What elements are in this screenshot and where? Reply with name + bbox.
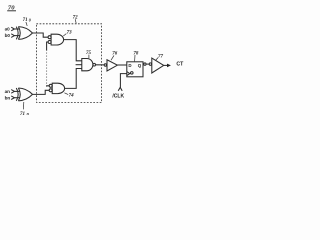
wire bn (14, 97, 20, 99)
svg-text:0: 0 (29, 17, 31, 22)
inverter 76 (107, 60, 117, 71)
AND gate 73 (51, 34, 63, 45)
gate 73 input bubble bottom (48, 41, 51, 44)
label 78 (133, 51, 139, 56)
label 75 (86, 51, 92, 56)
svg-text:78: 78 (133, 51, 139, 56)
gate 74 upper input wire from dots (47, 85, 50, 88)
clock wire (120, 74, 126, 88)
input bn (5, 95, 11, 100)
buffer 77 (152, 58, 164, 73)
svg-text:CT: CT (176, 62, 184, 68)
wire NAND 75 to inverter 76 (95, 64, 104, 66)
pin chevron a0 (11, 27, 14, 31)
output arrowhead (167, 64, 171, 68)
svg-text:b0: b0 (5, 33, 11, 38)
NAND 75 middle input stub (76, 64, 82, 66)
wire XOR0 out to gate 73 (33, 33, 49, 37)
figure label 70 (8, 4, 15, 11)
label 72 (73, 16, 79, 21)
svg-text:an: an (5, 89, 11, 94)
pin D (128, 63, 131, 68)
pin Q (138, 63, 142, 68)
label 76 (112, 52, 118, 57)
svg-text:bn: bn (5, 95, 11, 100)
label 71 n (20, 111, 30, 117)
svg-text:76: 76 (112, 52, 118, 57)
inverter 76 input bubble (104, 64, 106, 66)
XOR gate 71_0 (16, 27, 32, 40)
svg-text:74: 74 (69, 94, 75, 99)
ellipsis continuation dots (46, 53, 48, 86)
wire 74 out to NAND 75 (65, 69, 82, 89)
clock chevron (118, 87, 122, 90)
dashed box 72 (36, 24, 101, 103)
label 74 (69, 94, 75, 99)
output wire CT (164, 64, 168, 66)
NAND gate 75 (82, 59, 93, 71)
svg-text:Q: Q (138, 63, 142, 68)
gate 74 input bubble bottom (49, 89, 52, 92)
XOR gate 71_n (16, 88, 32, 101)
NAND 75 output bubble (93, 63, 96, 66)
label /CLK (112, 94, 124, 100)
gate 73 lower input wire (47, 42, 49, 51)
pin chevron an (11, 90, 14, 94)
Q output bubble (144, 63, 146, 65)
wire 76 to D flip-flop (117, 64, 126, 66)
svg-text:73: 73 (67, 31, 73, 36)
svg-text:a0: a0 (5, 27, 11, 32)
svg-text:71: 71 (23, 18, 28, 23)
label 71 0 (23, 17, 31, 23)
input b0 (5, 33, 11, 38)
svg-text:D: D (128, 63, 131, 68)
AND gate 74 (52, 83, 64, 93)
wire a0 (14, 28, 20, 30)
svg-text:71: 71 (20, 112, 25, 117)
svg-text:/CLK: /CLK (112, 94, 124, 100)
clock wedge (127, 72, 130, 76)
clock pin glyph (131, 72, 134, 75)
wire Q to buffer 77 (146, 63, 149, 65)
svg-text:77: 77 (158, 54, 164, 59)
wire XORn out to gate 74 (33, 90, 50, 94)
label 73 (67, 31, 73, 36)
wire 73 out to NAND 75 (64, 40, 82, 61)
label 77 (158, 54, 164, 59)
gate 73 input bubble top (48, 36, 51, 39)
D flip-flop 78 box (127, 62, 143, 77)
buffer 77 input bubble (149, 63, 151, 65)
pin chevron b0 (11, 34, 14, 38)
wire b0 (14, 35, 20, 37)
input an (5, 89, 11, 94)
pin chevron bn (11, 96, 14, 100)
gate 74 input bubble top (49, 84, 52, 87)
wire an (14, 90, 20, 92)
input a0 (5, 27, 11, 32)
output label CT (176, 62, 184, 68)
